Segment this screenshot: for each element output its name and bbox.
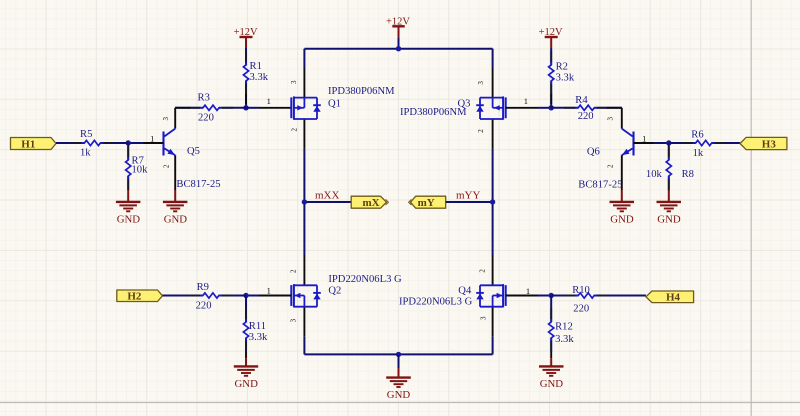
svg-text:2: 2 [606, 164, 614, 168]
svg-text:3: 3 [290, 318, 298, 322]
junction top bus [396, 46, 401, 51]
svg-text:Q1: Q1 [328, 98, 341, 109]
port mY tip chevron [409, 199, 412, 205]
svg-text:H2: H2 [127, 291, 142, 303]
svg-text:3: 3 [606, 116, 614, 120]
wire Q3 source down to node mYY [492, 119, 494, 149]
wire Q6 collector [621, 108, 623, 129]
mosfet Q2 IPD220N06L3 G [290, 285, 292, 306]
wire Q6 emitter to ground [621, 155, 623, 190]
wire Q4 source to bottom bus [492, 307, 494, 337]
svg-text:1: 1 [526, 286, 530, 296]
junction R9/R11/Q2-gate [243, 293, 248, 298]
svg-text:H1: H1 [21, 138, 35, 150]
resistor R8 10k [668, 143, 670, 160]
transistor Q6 BC817-25 [632, 132, 634, 156]
svg-text:BC817-25: BC817-25 [578, 180, 622, 191]
ground R8 [657, 201, 682, 203]
wire Q6 base [634, 142, 654, 144]
wire port mY to node mYY [446, 201, 493, 203]
wire Q5 collector [174, 108, 176, 129]
svg-text:1: 1 [267, 286, 271, 296]
svg-text:R8: R8 [682, 169, 694, 180]
svg-text:2: 2 [289, 269, 297, 273]
svg-text:2: 2 [477, 129, 485, 133]
wire Q5 base [128, 142, 143, 144]
svg-text:3: 3 [290, 80, 298, 84]
wire top bus +12V [304, 48, 492, 50]
svg-text:BC817-25: BC817-25 [176, 179, 220, 190]
svg-text:R2: R2 [556, 61, 568, 72]
port mY [411, 196, 446, 208]
svg-text:GND: GND [234, 378, 258, 390]
wire Q3 gate net [506, 107, 538, 109]
wire Q1 gate net [246, 107, 259, 109]
port H4 [646, 291, 694, 303]
resistor R5 1k [56, 142, 84, 144]
svg-text:1: 1 [150, 133, 154, 143]
svg-text:3.3k: 3.3k [249, 332, 268, 343]
wire node mXX to port mX [304, 201, 351, 203]
svg-text:Q6: Q6 [587, 146, 600, 157]
svg-text:R4: R4 [575, 95, 588, 106]
svg-text:GND: GND [610, 214, 634, 226]
ground R7 [116, 201, 140, 203]
svg-text:3: 3 [162, 116, 170, 120]
svg-text:R9: R9 [197, 282, 209, 293]
wire Q2 gate net [246, 295, 259, 297]
svg-text:1: 1 [642, 133, 646, 143]
wire Q1 drain to bus [303, 49, 305, 69]
svg-text:R11: R11 [249, 321, 266, 332]
svg-text:GND: GND [540, 378, 564, 390]
junction mYY [490, 199, 495, 204]
svg-text:3.3k: 3.3k [555, 334, 574, 345]
svg-text:+12V: +12V [386, 16, 410, 27]
resistor R11 3.3k [245, 296, 247, 323]
power +12V center [398, 37, 400, 48]
svg-text:1k: 1k [80, 147, 91, 158]
port H3 [740, 137, 787, 149]
svg-text:2: 2 [163, 164, 171, 168]
resistor R12 3.3k [550, 296, 552, 323]
svg-text:R12: R12 [555, 322, 573, 333]
svg-text:2: 2 [291, 128, 299, 132]
mosfet Q1 IPD380P06NM [290, 97, 292, 118]
junction R10/R12/Q4-gate [549, 293, 554, 298]
wire Q2 drain [303, 255, 305, 285]
resistor R1 3.3k [245, 48, 247, 65]
svg-text:Q2: Q2 [328, 286, 341, 297]
transistor Q5 BC817-25 [162, 132, 164, 156]
port mX [351, 196, 386, 208]
svg-text:10k: 10k [132, 165, 149, 176]
wire Q4 drain [492, 255, 494, 285]
svg-text:3: 3 [480, 316, 488, 320]
svg-text:IPD380P06NM: IPD380P06NM [400, 107, 467, 118]
svg-text:R6: R6 [691, 129, 703, 140]
ground Q5 emitter [163, 201, 188, 203]
resistor R10 220 [551, 295, 578, 297]
mosfet Q3 IPD380P06NM [505, 97, 507, 118]
svg-text:R10: R10 [572, 285, 590, 296]
port H2 [117, 290, 163, 302]
svg-text:220: 220 [578, 111, 594, 122]
wire bottom bus GND [304, 353, 492, 355]
wire Q3 drain to bus [492, 49, 494, 69]
resistor R3 220 [175, 107, 203, 109]
svg-text:H3: H3 [762, 139, 777, 151]
svg-text:220: 220 [198, 112, 214, 123]
svg-text:3: 3 [477, 81, 485, 85]
svg-text:mXX: mXX [315, 189, 340, 201]
svg-text:H4: H4 [666, 292, 681, 304]
ground R11 [234, 365, 258, 367]
port H1 [11, 138, 57, 150]
svg-text:IPD220N06L3 G: IPD220N06L3 G [399, 297, 473, 308]
junction bottom bus [396, 352, 401, 357]
junction R2/R4/Q3-gate [549, 105, 554, 110]
svg-text:GND: GND [117, 214, 141, 226]
svg-text:1: 1 [524, 96, 528, 106]
mosfet Q4 IPD220N06L3 G [505, 285, 507, 306]
ground center bottom [398, 354, 400, 368]
svg-text:GND: GND [387, 389, 411, 401]
resistor R4 220 [551, 107, 578, 109]
svg-text:2: 2 [478, 269, 486, 273]
svg-text:GND: GND [164, 214, 188, 226]
svg-text:R5: R5 [80, 129, 92, 140]
wire Q5 emitter to ground [174, 155, 176, 190]
ground R12 [539, 365, 564, 367]
svg-text:10k: 10k [646, 169, 663, 180]
junction R5/R7/Q5-base [126, 140, 131, 145]
svg-text:Q5: Q5 [187, 146, 200, 157]
svg-text:3.3k: 3.3k [250, 72, 269, 83]
ground Q6 emitter [610, 201, 635, 203]
svg-text:1: 1 [267, 96, 271, 106]
svg-text:mX: mX [362, 197, 379, 209]
svg-text:1k: 1k [693, 148, 704, 159]
svg-text:220: 220 [573, 303, 589, 314]
junction mXX [302, 199, 307, 204]
junction R1/R3/Q1-gate [243, 105, 248, 110]
svg-text:Q4: Q4 [458, 286, 472, 297]
svg-text:IPD380P06NM: IPD380P06NM [328, 86, 395, 97]
svg-text:R3: R3 [198, 92, 210, 103]
resistor R9 220 [163, 295, 203, 297]
resistor R6 1k [669, 142, 696, 144]
wire Q1 source down to node mXX [303, 119, 305, 149]
svg-text:mYY: mYY [456, 189, 481, 201]
svg-text:IPD220N06L3 G: IPD220N06L3 G [328, 274, 402, 285]
svg-text:R1: R1 [250, 61, 262, 72]
port mX tip chevron [386, 199, 389, 205]
wire Q4 gate net [506, 295, 538, 297]
svg-text:GND: GND [657, 214, 681, 226]
resistor R2 3.3k [550, 48, 552, 65]
wire Q2 source to bottom bus [303, 307, 305, 337]
svg-text:3.3k: 3.3k [556, 73, 575, 84]
svg-text:220: 220 [196, 301, 212, 312]
resistor R7 10k [127, 143, 129, 160]
svg-text:mY: mY [418, 197, 435, 209]
junction R6/R8/Q6-base [666, 140, 671, 145]
